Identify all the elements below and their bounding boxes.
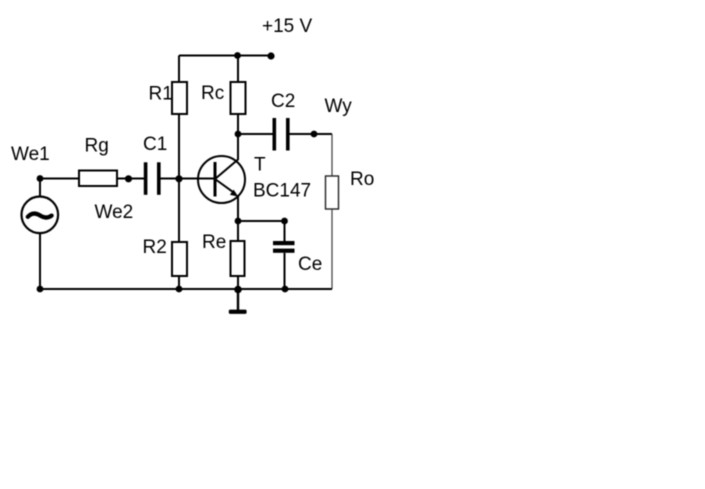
node junction dot base / R1R2 divider [175, 175, 182, 182]
wire emitter node to Ce [238, 220, 285, 222]
resistor Re [231, 241, 245, 276]
svg-text:Wy: Wy [325, 96, 353, 117]
svg-text:We1: We1 [11, 144, 50, 165]
node We1 top dot [37, 175, 44, 182]
svg-text:R2: R2 [143, 237, 167, 258]
resistor R1 [172, 82, 187, 114]
capacitor C2 [273, 118, 290, 151]
capacitor C1 [144, 162, 161, 195]
wire We1 dot to source [39, 179, 41, 197]
node +15V terminal dot [267, 52, 274, 59]
wire Rg to C1 [117, 178, 144, 180]
svg-text:T: T [254, 155, 266, 176]
svg-text:Rg: Rg [85, 136, 109, 157]
resistor Rc [231, 82, 246, 114]
wire top supply rail [179, 55, 271, 57]
node dot bottom left We1 [37, 286, 44, 293]
svg-text:R1: R1 [149, 84, 173, 105]
svg-text:Ce: Ce [298, 254, 322, 275]
svg-text:We2: We2 [95, 202, 134, 223]
node junction dot Ce top [281, 218, 288, 225]
node junction dot top rail / Rc [234, 52, 241, 59]
node dot bottom Ce [282, 286, 289, 293]
ground [229, 289, 247, 314]
node dot bottom R2 [176, 286, 183, 293]
wire R2 bottom to ground rail [178, 276, 180, 289]
wire Ce top lead [284, 221, 286, 241]
node junction dot collector / C2 [235, 131, 242, 138]
wire emitter down to emitter node [237, 195, 239, 241]
transistor Q T BC147 [198, 156, 245, 203]
wire top rail to R1 [178, 56, 180, 83]
svg-text:C2: C2 [271, 91, 295, 112]
wire Re bottom to ground rail [237, 276, 239, 289]
node dot bottom Re / ground [234, 286, 242, 294]
svg-text:Ro: Ro [350, 169, 374, 190]
wire C1 to base [161, 178, 215, 180]
svg-text:Re: Re [202, 232, 226, 253]
node Wy junction dot [311, 131, 318, 138]
wire bottom ground rail [40, 288, 332, 290]
wire C2 to Wy node [290, 133, 333, 135]
svg-text:Rc: Rc [201, 83, 224, 104]
svg-text:C1: C1 [143, 134, 167, 155]
wire top rail to Rc [237, 56, 239, 83]
wire We1 to Rg [40, 178, 79, 180]
wire source to ground rail [39, 233, 41, 289]
wire collector node to C2 [238, 133, 273, 135]
resistor Rg [79, 171, 117, 187]
resistor Ro [326, 176, 339, 209]
wire Ro bottom to ground rail [331, 209, 333, 289]
svg-text:BC147: BC147 [253, 181, 311, 202]
node junction dot We2 [125, 175, 132, 182]
svg-text:+15 V: +15 V [262, 16, 313, 37]
wire Ce bottom lead [284, 253, 286, 289]
resistor R2 [172, 242, 187, 276]
capacitor Ce [273, 241, 295, 253]
wire Wy node down to Ro [331, 134, 333, 176]
node junction dot emitter / Ce wire [235, 218, 242, 225]
wire R1 bottom to base node and to R2 [178, 114, 180, 242]
wire Rc bottom to collector node [237, 114, 239, 160]
source We1 AC generator [22, 197, 59, 234]
